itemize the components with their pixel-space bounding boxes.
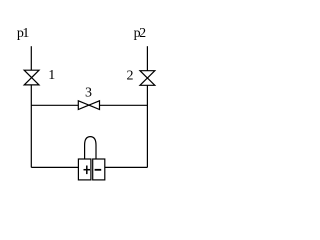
valve 2: [140, 71, 155, 86]
svg-text:1: 1: [48, 68, 55, 83]
svg-text:3: 3: [85, 85, 92, 100]
wire p2 inlet vertical: [146, 46, 148, 70]
valve 3: [78, 101, 99, 110]
wire p1 inlet vertical: [30, 46, 32, 70]
wire lower horizontal right segment: [105, 166, 148, 168]
wire upper horizontal left segment: [31, 104, 78, 106]
minus sign: [95, 169, 102, 171]
svg-text:p2: p2: [134, 26, 147, 41]
wire left vertical below valve 1: [30, 85, 32, 167]
transmitter minus chamber box: [93, 159, 105, 180]
wire right vertical below valve 2: [146, 85, 148, 167]
wire lower horizontal left segment: [31, 166, 78, 168]
svg-text:p1: p1: [17, 26, 30, 41]
transmitter plus chamber box: [78, 159, 91, 180]
svg-text:2: 2: [127, 69, 134, 84]
plus sign: [84, 166, 91, 175]
wire upper horizontal right segment: [100, 104, 148, 106]
valve 1: [24, 70, 39, 85]
transmitter dome: [85, 137, 96, 159]
